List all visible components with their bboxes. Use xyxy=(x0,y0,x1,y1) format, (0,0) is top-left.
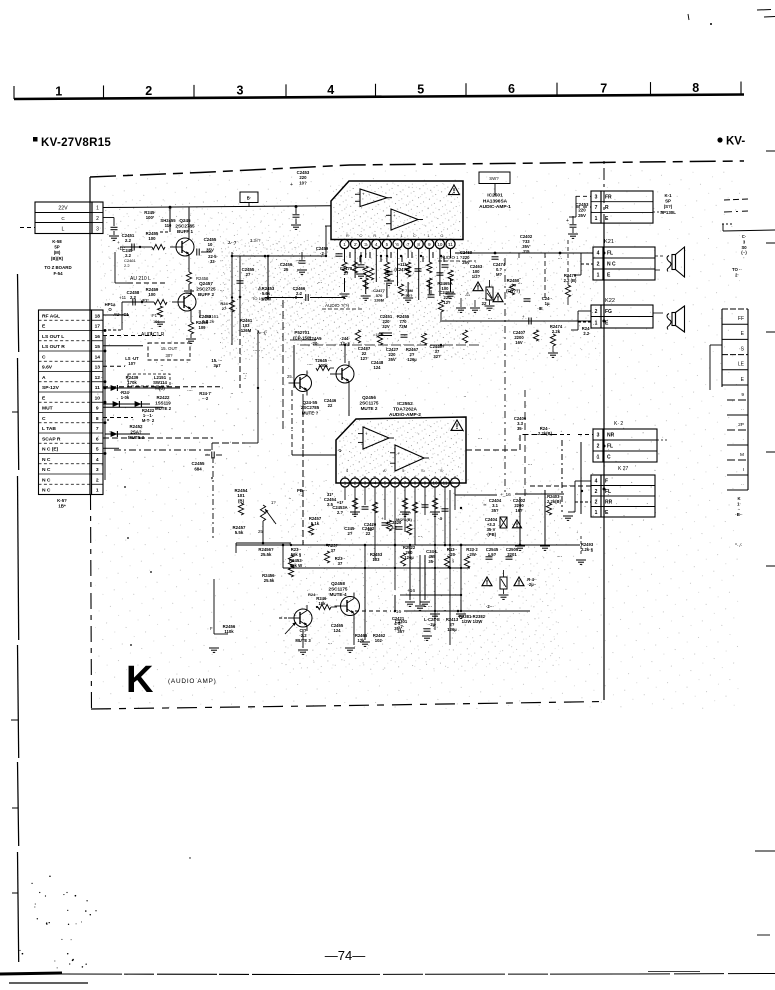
svg-text:8: 8 xyxy=(692,81,699,95)
capacitor C2460 xyxy=(237,267,255,283)
ground mid right xyxy=(456,291,480,312)
svg-text:3µ7: 3µ7 xyxy=(213,363,221,368)
wire IC2 left feed xyxy=(292,430,336,455)
svg-text:1B*: 1B* xyxy=(58,504,66,509)
svg-text:6: 6 xyxy=(508,82,515,96)
svg-text:M: M xyxy=(740,452,744,458)
svg-text:(··): (··) xyxy=(741,250,747,255)
resistor R2511 xyxy=(288,547,302,567)
svg-text:KV-27V8R15: KV-27V8R15 xyxy=(41,137,111,149)
capacitor C2504 boxed xyxy=(485,517,522,537)
wire FL line to K21 xyxy=(455,252,593,255)
resistor R2457 xyxy=(233,525,246,535)
svg-text:·: · xyxy=(743,256,744,261)
svg-text:E: E xyxy=(42,395,46,401)
wire lower horizontal bus xyxy=(236,544,580,547)
op-amp U1b xyxy=(386,209,423,230)
svg-text:K-58: K-58 xyxy=(52,239,62,244)
ground IC1 area xyxy=(297,270,394,285)
section letter K (AUDIO AMP) xyxy=(126,659,217,701)
resistor R2503 xyxy=(546,494,561,515)
svg-text:K-5?: K-5? xyxy=(57,498,67,503)
switch B small box xyxy=(240,192,292,430)
svg-text:1/2?: 1/2? xyxy=(472,274,481,279)
wire buffer1 emitter xyxy=(184,260,209,295)
resistor R2454 xyxy=(235,488,248,515)
node P52701 xyxy=(290,330,316,340)
potentiometer R2451 xyxy=(258,500,276,534)
wire R2461 node xyxy=(300,344,480,346)
connector K27 xyxy=(563,466,655,520)
resistor R2465A xyxy=(437,281,452,320)
resistor R2470 xyxy=(220,300,234,312)
wire main right bus xyxy=(603,223,606,700)
resistor R2453 5.6k xyxy=(252,286,275,301)
capacitor C2421 xyxy=(381,516,402,530)
transistor Q2459 xyxy=(335,593,360,620)
svg-text:3: 3 xyxy=(743,239,746,244)
relay L2151 SW114 labels xyxy=(126,374,170,390)
resistor R2459 xyxy=(142,287,167,305)
note TO Z BOARD xyxy=(44,265,71,276)
svg-text:·: · xyxy=(742,438,744,443)
svg-text:(B)(R): (B)(R) xyxy=(51,256,64,261)
transistor Q2457 2SC2785 BUFFER 2 xyxy=(172,281,216,315)
resistor R2475 xyxy=(576,529,594,564)
capacitor C2420 xyxy=(362,507,377,532)
node +16 arrow 1 xyxy=(400,588,462,596)
wire lower vertical rails xyxy=(283,490,470,645)
svg-text:9: 9 xyxy=(741,392,744,398)
svg-text:2.2·: 2.2· xyxy=(583,331,590,336)
capacitor C2466 xyxy=(265,286,345,306)
capacitor C2459 xyxy=(316,246,343,256)
capacitor C2404 xyxy=(483,498,502,513)
transistor Q2458 MUTE 4 xyxy=(288,581,348,631)
node -11 feed xyxy=(396,511,412,522)
value labels scatter xyxy=(113,210,562,646)
node K-58 label xyxy=(51,239,64,261)
wire audio input group xyxy=(108,246,165,330)
svg-text:S0: S0 xyxy=(741,245,747,250)
IC2552 pin name labels xyxy=(346,469,444,473)
svg-text:·1·: ·1· xyxy=(337,448,342,453)
op-amp U2a xyxy=(358,427,394,449)
wire buffer feed xyxy=(160,208,170,233)
svg-text:E: E xyxy=(42,324,46,330)
svg-text:7: 7 xyxy=(600,81,607,95)
capacitor C2451 xyxy=(117,233,140,251)
speaker SP-R xyxy=(653,306,685,332)
capacitor C2457 xyxy=(197,237,217,256)
capacitor C2456 xyxy=(280,252,306,272)
capacitor C2452 xyxy=(290,170,310,229)
op-amp IC2501 AUDIO AMP-1 body xyxy=(331,181,463,240)
capacitor C2407 xyxy=(513,330,526,345)
node AUDIO OUT box xyxy=(148,343,190,360)
svg-text:—74—: —74— xyxy=(325,948,365,963)
resistor R2461 emitter xyxy=(200,310,219,324)
connector K-1 SP output xyxy=(569,191,676,223)
svg-text:··: ·· xyxy=(244,376,247,381)
label IC2552 xyxy=(389,401,421,418)
svg-text:1: 1 xyxy=(55,85,62,99)
connector CN2302 18-pin board interface xyxy=(39,310,104,495)
transistor Q2443 xyxy=(289,371,312,396)
node K-5F label xyxy=(57,498,67,509)
resistor R2474 xyxy=(548,324,563,357)
capacitor C2446 xyxy=(324,398,337,408)
wire 22V rail xyxy=(103,205,331,209)
transistor Q2455 2SC2785 BUFFER xyxy=(170,218,195,260)
svg-text:5P: 5P xyxy=(54,245,59,250)
op-amp IC2552 AUDIO AMP-2 body xyxy=(336,417,466,483)
relay K22 xyxy=(571,298,653,330)
wire center rails xyxy=(231,252,283,443)
svg-text:··: ·· xyxy=(741,408,745,413)
adjacent page K label xyxy=(735,496,743,549)
transistor label Q2456 MUTE 2 xyxy=(360,395,379,411)
svg-text:C: C xyxy=(42,354,46,360)
diode D2303 MUTE 3 xyxy=(105,424,150,440)
resistor R2450 fusible xyxy=(473,278,520,310)
capacitor C2448 xyxy=(371,360,384,370)
svg-text:25.5k: 25.5k xyxy=(264,578,275,583)
resistor R2455 xyxy=(140,231,165,250)
resistor R2446 100k xyxy=(315,358,334,371)
capacitor C2455 coupling xyxy=(192,452,222,472)
svg-text:···: ··· xyxy=(518,281,522,286)
IC2501 pin name labels xyxy=(346,234,443,238)
svg-text:N C: N C xyxy=(42,457,51,463)
wire connector stubs xyxy=(103,315,223,455)
wire IC2552 pin drops xyxy=(345,487,455,630)
svg-text:2: 2 xyxy=(145,84,152,98)
wire mesh fill xyxy=(189,208,550,653)
svg-text:E: E xyxy=(741,331,745,337)
resistor network under IC2501 xyxy=(340,262,456,302)
capacitor C2453 xyxy=(566,202,589,238)
svg-text:LS OUT L: LS OUT L xyxy=(42,334,64,340)
svg-text:N C: N C xyxy=(42,467,51,473)
speaker SP-L xyxy=(655,247,685,277)
warning mark IC2 xyxy=(451,420,463,430)
capacitor C2402 xyxy=(519,234,533,258)
resistor R2467 base xyxy=(316,596,337,610)
resistor cluster under IC1 row2 xyxy=(355,330,467,362)
IC2501 pins 1-11 xyxy=(325,226,455,249)
svg-text:L TAB: L TAB xyxy=(42,426,56,432)
svg-text:···: ··· xyxy=(418,534,422,539)
svg-text:22V: 22V xyxy=(58,206,68,212)
wire pairA xyxy=(287,345,349,412)
switch SW2301 xyxy=(479,172,510,196)
capacitor C2545 C2505 xyxy=(486,547,519,559)
svg-text:F-54: F-54 xyxy=(53,271,63,276)
page number 74 xyxy=(325,948,365,963)
adjacent page top wires xyxy=(722,199,775,231)
capacitor C2461b xyxy=(373,314,410,337)
op-amp U1a xyxy=(355,189,392,207)
wire mid dashed vertical xyxy=(212,457,214,540)
resistor R2512 xyxy=(324,543,338,563)
resistor R2381 R2382 xyxy=(444,547,478,568)
IC2552 pins 1-12 xyxy=(341,476,460,487)
resistor R2460 xyxy=(186,315,209,343)
diode D2301 mute line xyxy=(103,335,180,480)
capacitor C2471 xyxy=(386,262,411,274)
svg-text:··: ·· xyxy=(161,368,164,373)
svg-text:L: L xyxy=(62,227,65,233)
resistor R2458 xyxy=(288,558,303,577)
capacitor C2412 xyxy=(426,549,438,564)
svg-text:··: ·· xyxy=(741,483,745,488)
svg-text:(M): (M) xyxy=(54,250,61,255)
transistor Q2445 xyxy=(330,361,354,387)
svg-text:N C (E): N C (E) xyxy=(42,447,59,453)
resistor R2479 xyxy=(564,240,577,305)
svg-text:4: 4 xyxy=(327,83,334,97)
wire volume node xyxy=(236,521,291,553)
resistor R2506 fusible xyxy=(482,570,537,599)
svg-text:TO Z BOARD: TO Z BOARD xyxy=(44,265,71,270)
junction dots mid area xyxy=(107,419,213,646)
resistor R2456b xyxy=(258,547,274,557)
svg-text:RF AGL: RF AGL xyxy=(42,313,60,319)
wire mute bus xyxy=(114,443,258,450)
svg-text:22: 22 xyxy=(482,301,487,306)
adjacent page labels xyxy=(732,234,747,277)
op-amp U2b xyxy=(390,445,429,471)
resistor R2463 xyxy=(398,284,413,298)
node AUDIO L xyxy=(128,276,168,283)
adjacent page header KV- xyxy=(717,136,745,148)
svg-text:A: A xyxy=(42,375,46,381)
capacitor C2408 C2410 xyxy=(422,617,459,640)
svg-text:N C: N C xyxy=(42,477,51,483)
node AUDIO tap xyxy=(438,255,476,261)
resistor R2465 xyxy=(307,592,318,650)
label IC2501 xyxy=(479,193,511,211)
wire +16 bottom rail xyxy=(355,609,530,615)
adjacent page connector strip xyxy=(710,309,748,490)
svg-text:3: 3 xyxy=(237,84,244,98)
svg-text:N C: N C xyxy=(42,488,51,494)
svg-text:I: I xyxy=(743,467,744,473)
resistor R2462 xyxy=(368,268,385,303)
svg-text:5: 5 xyxy=(417,82,424,96)
node AUDIO R xyxy=(141,332,165,338)
svg-text:B·: B· xyxy=(247,196,251,201)
node +16 upper xyxy=(460,492,564,509)
wire FG line to K22 xyxy=(440,314,605,325)
svg-text:SCAP R: SCAP R xyxy=(42,436,61,442)
node AUDIO IN 2 xyxy=(322,303,362,309)
relay K21 xyxy=(574,239,655,280)
labels under pairB xyxy=(295,623,386,643)
svg-text:C: C xyxy=(42,416,46,422)
page header model number KV-27V8R15 xyxy=(33,137,111,149)
wire pairB xyxy=(279,618,354,654)
connector K-2 rear xyxy=(553,421,668,462)
svg-text:E: E xyxy=(741,377,745,383)
capacitor C2478 xyxy=(340,252,365,276)
output network under IC2552 xyxy=(350,435,593,517)
svg-text:22: 22 xyxy=(366,531,371,536)
warning mark IC1 xyxy=(449,185,460,195)
svg-text:10?: 10? xyxy=(128,361,136,366)
label Q2455 MUTE 3 xyxy=(301,400,320,415)
connector CN2301 22V input xyxy=(20,202,103,234)
wire IC2501 pin drops xyxy=(345,249,451,300)
capacitor C2301 xyxy=(395,619,408,634)
diode D2302 MUTE 2 xyxy=(135,395,172,411)
resistor R2522 xyxy=(400,545,415,566)
capacitor C2469A xyxy=(428,290,455,305)
capacitor C2502 xyxy=(513,498,526,513)
svg-text:9.6V: 9.6V xyxy=(42,365,53,371)
capacitor C2453A xyxy=(332,500,347,515)
wire right bus dashes xyxy=(505,253,545,497)
svg-text:C: C xyxy=(61,216,65,221)
wire IC1 left feed xyxy=(232,226,326,257)
svg-text:LS OUT R: LS OUT R xyxy=(42,344,65,350)
svg-text:KV-: KV- xyxy=(726,136,745,148)
svg-text:SP-12V: SP-12V xyxy=(42,385,60,391)
svg-text:1µ: 1µ xyxy=(545,301,550,306)
capacitor C2458 xyxy=(119,290,142,306)
wire pin2 stub xyxy=(103,218,119,241)
hot zone parts fill xyxy=(125,252,592,583)
svg-text:C·: C· xyxy=(742,234,746,239)
resistor R2456 110k xyxy=(209,579,236,652)
svg-text:MUT: MUT xyxy=(42,406,53,412)
labels R2445 R2443 xyxy=(308,336,350,346)
capacitor C2474 xyxy=(492,257,506,277)
node HP label xyxy=(105,302,116,312)
